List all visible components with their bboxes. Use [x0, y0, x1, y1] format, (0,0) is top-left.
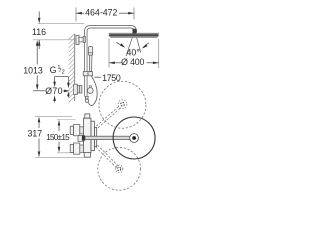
- dimension Ø400: [109, 39, 159, 69]
- valve center protrusion: [78, 136, 84, 142]
- label Ø70: [45, 86, 70, 102]
- dashed position A (upper): [96, 81, 145, 128]
- supply connection (wall union, Ø70 escutcheon): [74, 84, 82, 94]
- svg-text:150±15: 150±15: [46, 133, 70, 142]
- svg-text:464-472: 464-472: [85, 8, 117, 18]
- swivel arm (solid position): [85, 136, 133, 139]
- shower hose: [88, 76, 97, 106]
- ball joint (solid): [130, 134, 139, 143]
- label G 1/2: [50, 65, 70, 98]
- wall: [74, 34, 76, 101]
- spray cone 40deg: [116, 38, 149, 58]
- head connector: [133, 29, 137, 34]
- shower head (rain shower, side view): [109, 33, 159, 37]
- dimension 116: [32, 12, 84, 50]
- wall bracket (top): [76, 35, 85, 44]
- thermostat valve body (plan view): [83, 114, 96, 157]
- valve knob top: [70, 125, 83, 136]
- hose outlet: [85, 96, 88, 99]
- rail pipe: [84, 33, 87, 97]
- svg-text:317: 317: [27, 129, 42, 139]
- svg-text:Ø70: Ø70: [45, 86, 63, 96]
- svg-text:Ø 400: Ø 400: [121, 57, 144, 67]
- svg-text:116: 116: [32, 27, 46, 37]
- valve knob bottom: [70, 143, 83, 154]
- swivel pivot block: [82, 135, 85, 140]
- hand shower circle (solid position): [113, 117, 155, 159]
- svg-text:2: 2: [62, 70, 65, 76]
- plan view: dimension 317: [27, 116, 83, 157]
- diverter knob: [89, 86, 91, 88]
- plan view: dimension 150±15: [46, 120, 75, 153]
- hand shower: [89, 47, 93, 72]
- label 1750: [95, 73, 121, 83]
- svg-text:G: G: [50, 65, 57, 75]
- hand shower holder: [83, 72, 92, 76]
- wall hatching: [69, 34, 75, 103]
- shower arm (pipe from rail to head): [86, 27, 136, 34]
- dimension 464-472: [76, 8, 134, 22]
- svg-text:1013: 1013: [23, 65, 43, 75]
- dashed position B (lower): [96, 145, 141, 190]
- dimension 1013: [23, 40, 45, 91]
